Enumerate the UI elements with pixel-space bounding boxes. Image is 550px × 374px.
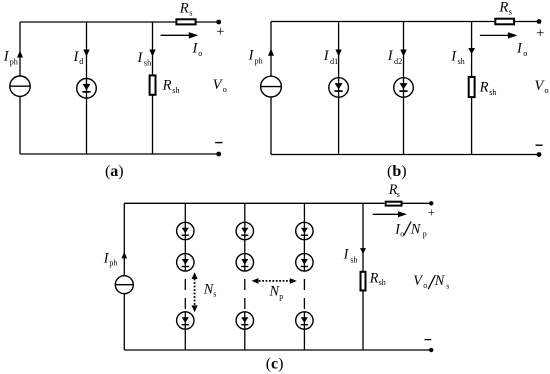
svg-text:sh: sh: [144, 59, 151, 68]
svg-text:sh: sh: [458, 57, 465, 66]
svg-text:R: R: [479, 80, 489, 96]
svg-text:s: s: [446, 281, 449, 290]
svg-text:sh: sh: [172, 86, 179, 95]
svg-text:I: I: [343, 247, 350, 263]
svg-text:R: R: [369, 270, 379, 286]
svg-text:o: o: [223, 85, 227, 94]
svg-text:R: R: [498, 0, 508, 16]
svg-text:I: I: [516, 41, 523, 57]
svg-text:R: R: [179, 1, 189, 17]
svg-text:s: s: [213, 289, 216, 298]
svg-text:+: +: [536, 25, 544, 41]
svg-text:s: s: [397, 190, 400, 199]
svg-text:sh: sh: [350, 256, 357, 265]
svg-text:o: o: [545, 86, 549, 95]
svg-text:o: o: [423, 281, 427, 290]
svg-text:N: N: [410, 221, 422, 237]
svg-text:I: I: [450, 48, 457, 64]
svg-text:sh: sh: [489, 88, 496, 97]
svg-text:ph: ph: [109, 258, 117, 267]
svg-text:+: +: [428, 206, 435, 220]
svg-text:(c): (c): [266, 355, 284, 372]
svg-text:+: +: [216, 24, 224, 40]
svg-text:R: R: [162, 78, 172, 94]
svg-text:d1: d1: [330, 57, 338, 66]
svg-text:s: s: [189, 9, 192, 18]
svg-text:p: p: [423, 230, 427, 239]
svg-text:o: o: [198, 49, 202, 58]
svg-text:ph: ph: [255, 56, 263, 65]
svg-text:o: o: [400, 230, 404, 239]
svg-text:o: o: [523, 49, 527, 58]
svg-text:(b): (b): [387, 163, 407, 180]
svg-text:I: I: [387, 48, 394, 64]
svg-text:s: s: [509, 8, 512, 17]
svg-text:N: N: [434, 273, 446, 289]
svg-text:ph: ph: [10, 58, 18, 67]
svg-text:I: I: [137, 50, 144, 66]
svg-text:sh: sh: [379, 278, 386, 287]
svg-text:p: p: [279, 292, 283, 301]
svg-text:d2: d2: [394, 57, 402, 66]
svg-text:(a): (a): [105, 163, 124, 180]
svg-text:I: I: [323, 48, 330, 64]
svg-text:d: d: [79, 57, 83, 66]
